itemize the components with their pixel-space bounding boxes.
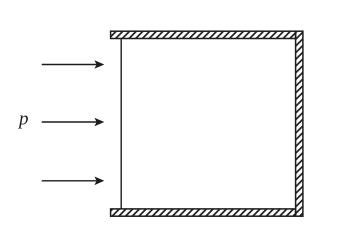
wall right (hatched) bbox=[296, 31, 303, 216]
arrow 2 (middle pressure arrow) bbox=[42, 118, 105, 127]
membrane (left wall line) bbox=[120, 39, 122, 209]
wall top (hatched) bbox=[111, 31, 296, 38]
arrow 3 (bottom pressure arrow) bbox=[42, 177, 105, 186]
arrow 1 (top pressure arrow) bbox=[42, 60, 105, 69]
svg-text:p: p bbox=[17, 109, 29, 130]
wall bottom (hatched) bbox=[111, 209, 296, 216]
